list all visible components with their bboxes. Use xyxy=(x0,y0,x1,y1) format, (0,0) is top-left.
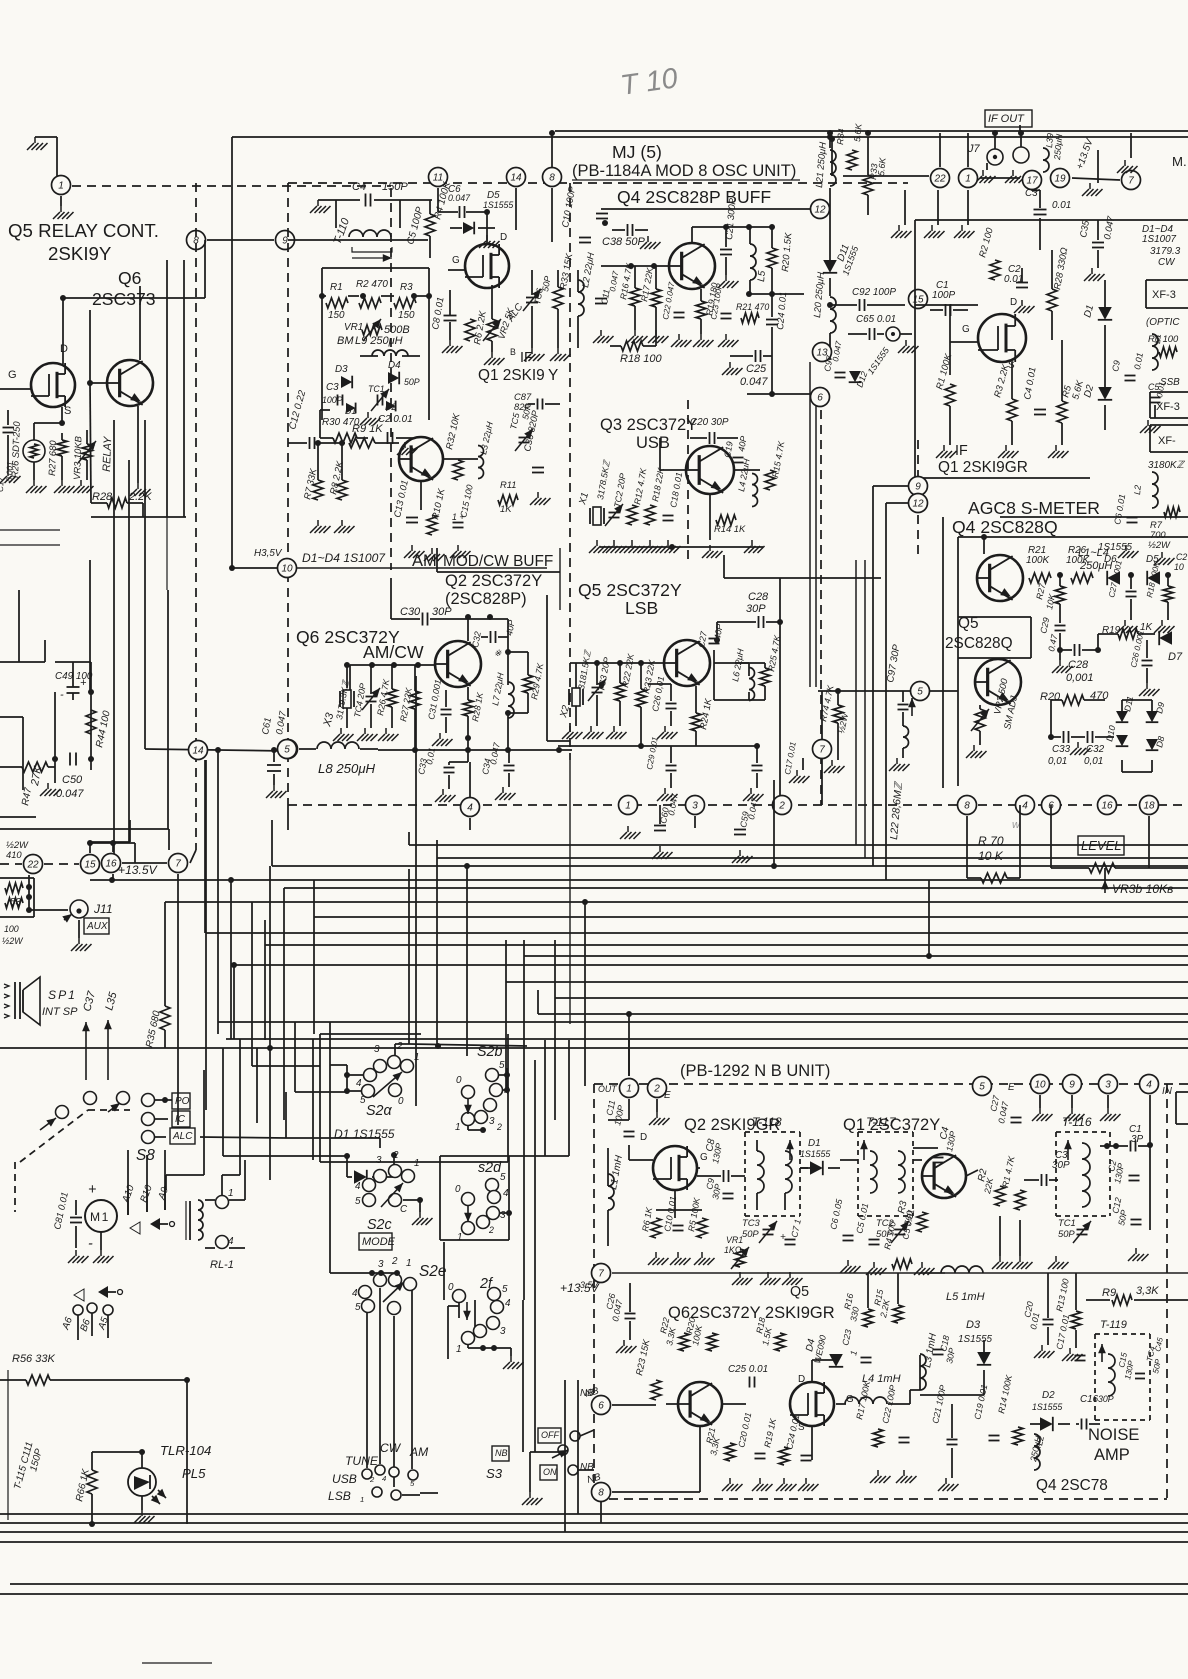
svg-text:+: + xyxy=(80,677,87,689)
arrow L35 xyxy=(107,1020,109,1080)
svg-text:XF-3: XF-3 xyxy=(1156,401,1180,413)
svg-text:S: S xyxy=(64,405,71,417)
Q4 mid rail xyxy=(749,293,804,295)
svg-text:1: 1 xyxy=(455,1122,461,1133)
svg-text:1: 1 xyxy=(414,1158,420,1169)
NB input parts xyxy=(608,1174,614,1210)
meter switch contacts xyxy=(130,1222,140,1234)
capacitor C17 0.001 left edge xyxy=(3,427,14,429)
node 15 xyxy=(81,855,100,874)
svg-text:※: ※ xyxy=(494,648,502,658)
node 3 bottom xyxy=(686,796,705,815)
svg-text:E: E xyxy=(664,1090,671,1101)
resistor R74 xyxy=(833,705,843,723)
wires relay transistors xyxy=(62,298,64,364)
svg-text:0.047: 0.047 xyxy=(448,193,471,203)
wire node9 into unit xyxy=(288,239,428,241)
node 4 bottom xyxy=(461,798,480,817)
svg-text:R27 680: R27 680 xyxy=(46,439,58,476)
svg-text:NB: NB xyxy=(580,1462,594,1473)
svg-text:30P: 30P xyxy=(746,603,766,615)
svg-text:VR1: VR1 xyxy=(344,322,363,333)
svg-text:G: G xyxy=(700,1152,708,1163)
svg-text:5: 5 xyxy=(284,745,290,756)
svg-text:USB: USB xyxy=(636,434,670,452)
label OFF boxed xyxy=(538,1428,561,1443)
svg-text:T-117: T-117 xyxy=(866,1115,897,1129)
svg-text:D1 1S1555: D1 1S1555 xyxy=(334,1127,395,1141)
svg-text:-: - xyxy=(88,1236,93,1252)
ground below node 1 xyxy=(60,206,62,212)
svg-text:LSB: LSB xyxy=(328,1489,351,1503)
2f left wire xyxy=(447,1306,449,1359)
crystal filter XF-3 box 2 xyxy=(1150,391,1188,393)
svg-text:S2e: S2e xyxy=(419,1263,446,1280)
svg-text:8: 8 xyxy=(964,801,970,812)
svg-text:1: 1 xyxy=(625,801,631,812)
svg-text:S2b: S2b xyxy=(477,1044,502,1060)
NB node 3 xyxy=(1099,1075,1118,1094)
resistor R4 100K xyxy=(425,214,435,236)
svg-text:D3: D3 xyxy=(966,1319,981,1331)
transistor Q1 NB xyxy=(922,1154,966,1198)
svg-text:16: 16 xyxy=(105,859,117,870)
ground M1 xyxy=(100,1250,102,1256)
svg-text:4: 4 xyxy=(505,1298,511,1309)
svg-text:100P: 100P xyxy=(322,395,343,405)
long vertical from IF OUT line to node 10 row xyxy=(231,137,233,568)
svg-text:(PB-1292 N B UNIT): (PB-1292 N B UNIT) xyxy=(680,1062,830,1080)
svg-text:7: 7 xyxy=(598,1269,604,1280)
jack J11 xyxy=(70,900,88,918)
speaker SP1 xyxy=(14,982,16,1019)
vertical x129 xyxy=(128,460,130,842)
dashed divider x918 xyxy=(917,440,919,560)
svg-text:0.01: 0.01 xyxy=(1052,200,1071,211)
wires from S2e down to mode circles xyxy=(366,1312,368,1468)
svg-text:AM: AM xyxy=(409,1445,429,1459)
Q6 emitter wire xyxy=(137,406,139,483)
wire from node 11 xyxy=(437,188,439,212)
dashed divider x821 xyxy=(820,395,822,805)
NB node 5 xyxy=(973,1077,992,1096)
svg-text:12: 12 xyxy=(912,499,924,510)
node 5 xyxy=(279,740,298,759)
wire 10 row xyxy=(297,567,547,569)
svg-text:150P: 150P xyxy=(382,181,408,193)
svg-text:S2α: S2α xyxy=(366,1103,392,1119)
crystal filter XF-30 box xyxy=(1146,279,1188,281)
svg-text:2.2K: 2.2K xyxy=(128,491,152,503)
svg-text:3: 3 xyxy=(376,1155,382,1166)
svg-text:TC1: TC1 xyxy=(368,384,385,394)
crystal filter XF- box 3 xyxy=(1150,424,1188,426)
wires above NB unit xyxy=(584,1085,586,1087)
svg-text:4: 4 xyxy=(467,803,473,814)
svg-text:R 70: R 70 xyxy=(978,834,1004,848)
wire below node 14 top xyxy=(515,188,517,230)
svg-text:D1: D1 xyxy=(808,1138,821,1149)
ground PL5 xyxy=(141,1510,143,1516)
ground near D5 xyxy=(486,235,488,241)
LSB bottom rail xyxy=(558,745,710,747)
svg-text:B: B xyxy=(510,347,516,357)
resistor R28 1K emitter xyxy=(463,700,473,716)
svg-text:C28: C28 xyxy=(1068,659,1089,671)
svg-text:BM: BM xyxy=(337,335,354,347)
gate wire Q5 xyxy=(0,388,31,390)
svg-text:5: 5 xyxy=(355,1302,361,1313)
transistor Q6 2SC373 xyxy=(107,360,153,406)
resistor R27 680 xyxy=(57,440,67,456)
svg-text:+: + xyxy=(780,1232,786,1243)
arrow C37 xyxy=(85,1022,87,1080)
node 14 xyxy=(189,741,208,760)
node 22 top right xyxy=(931,169,950,188)
stray mark bottom xyxy=(142,1662,212,1664)
svg-text:M1: M1 xyxy=(90,1210,110,1224)
wire into IF gate xyxy=(915,304,978,306)
left column feed to J11 xyxy=(28,875,30,910)
vertical right of ALC xyxy=(203,1070,205,1175)
svg-text:VR3 10KB: VR3 10KB xyxy=(71,436,84,480)
capacitor C28 30P xyxy=(758,616,760,628)
svg-text:1S1555: 1S1555 xyxy=(483,200,513,210)
dashed top edge center unit xyxy=(288,182,908,184)
capacitor C33 0.01 xyxy=(449,761,468,763)
node 7 top right xyxy=(1122,171,1141,190)
svg-text:VR1: VR1 xyxy=(726,1235,743,1245)
svg-text:3: 3 xyxy=(378,1259,384,1270)
svg-text:5: 5 xyxy=(502,1284,508,1295)
inductor L2 22uH xyxy=(578,280,584,316)
svg-text:D: D xyxy=(640,1132,647,1143)
junction on bus xyxy=(771,863,777,869)
node 6 AGC xyxy=(1042,796,1061,815)
relay area verticals xyxy=(166,260,168,517)
svg-text:C65 0.01: C65 0.01 xyxy=(856,314,896,325)
diodes D1 D2 IF xyxy=(1098,307,1112,320)
transistor Q5 2SK19Y xyxy=(31,363,75,407)
svg-text:5: 5 xyxy=(500,1172,506,1183)
svg-text:16: 16 xyxy=(1101,801,1113,812)
label IF OUT boxed xyxy=(985,110,1032,127)
svg-text:IF OUT: IF OUT xyxy=(988,113,1025,125)
svg-text:H3,5V: H3,5V xyxy=(254,548,283,559)
resistor R33 15K xyxy=(553,287,563,309)
svg-text:TLR-104: TLR-104 xyxy=(160,1443,211,1458)
svg-text:D: D xyxy=(798,1374,805,1385)
svg-text:R3: R3 xyxy=(400,282,413,293)
node 11 xyxy=(429,168,448,187)
svg-text:10 K: 10 K xyxy=(978,849,1004,863)
svg-text:IF: IF xyxy=(955,443,968,459)
ground VR2 xyxy=(491,352,493,358)
ground under C28 xyxy=(1059,660,1061,666)
wire above 15/16 xyxy=(90,842,135,844)
resistor R18 100 xyxy=(621,341,643,351)
vertical x295 xyxy=(294,1022,296,1092)
svg-text:MJ (5): MJ (5) xyxy=(612,142,662,162)
capacitor TC6 50P xyxy=(526,297,538,299)
svg-text:5: 5 xyxy=(499,1060,505,1071)
vertical from node 6 xyxy=(815,405,817,687)
svg-text:4: 4 xyxy=(228,1236,234,1247)
wire y578 xyxy=(724,577,881,579)
vertical from node 13 xyxy=(809,362,811,687)
node 7 mid xyxy=(813,740,832,759)
svg-text:D: D xyxy=(60,343,68,355)
svg-text:14: 14 xyxy=(192,746,204,757)
node 13 xyxy=(813,343,832,362)
resistor R26 4.7K xyxy=(387,689,397,707)
svg-text:IN: IN xyxy=(1162,1086,1173,1097)
USB bottom rail xyxy=(600,546,763,548)
svg-text:2: 2 xyxy=(496,1122,502,1132)
svg-text:0,001: 0,001 xyxy=(1066,672,1094,684)
label IC boxed xyxy=(172,1111,190,1127)
svg-text:CW: CW xyxy=(380,1441,402,1455)
svg-text:T-116: T-116 xyxy=(1062,1115,1092,1129)
svg-text:ON: ON xyxy=(543,1467,557,1477)
wire below S2d box xyxy=(443,1242,445,1300)
node 1 bottom xyxy=(619,796,638,815)
svg-text:TC1: TC1 xyxy=(1058,1217,1076,1228)
label ALC boxed xyxy=(170,1128,195,1144)
svg-text:R18 100: R18 100 xyxy=(620,353,662,365)
svg-text:10: 10 xyxy=(281,564,293,575)
svg-text:T-118: T-118 xyxy=(752,1115,782,1129)
svg-text:2SKI9Y: 2SKI9Y xyxy=(48,243,112,264)
svg-text:L9 250μH: L9 250μH xyxy=(355,335,403,347)
crystal X3 xyxy=(339,691,341,707)
svg-text:14: 14 xyxy=(510,173,522,184)
USB components cluster xyxy=(589,508,591,524)
L5 1mH xyxy=(941,1266,983,1273)
svg-text:100K: 100K xyxy=(1066,555,1089,566)
svg-text:INT SP: INT SP xyxy=(42,1006,78,1018)
VR2 SM ADJ xyxy=(975,709,985,731)
bias parts under Q4 xyxy=(595,298,607,300)
svg-text:R1: R1 xyxy=(330,282,343,293)
svg-text:150: 150 xyxy=(398,310,415,321)
svg-text:10: 10 xyxy=(1174,562,1184,572)
svg-text:2: 2 xyxy=(396,1041,403,1052)
long verticals center xyxy=(569,760,571,1024)
svg-text:+: + xyxy=(88,1182,96,1198)
svg-text:18: 18 xyxy=(1143,801,1155,812)
resistor R24 1K xyxy=(691,713,701,731)
svg-text:D2: D2 xyxy=(1042,1390,1055,1401)
svg-text:3: 3 xyxy=(489,1116,495,1127)
svg-text:TUNE: TUNE xyxy=(345,1454,379,1468)
capacitor C28 0.001 xyxy=(1074,644,1076,656)
node 10 xyxy=(278,559,297,578)
node 18 AGC xyxy=(1140,796,1159,815)
node 7 xyxy=(169,854,188,873)
NB node 8 xyxy=(592,1483,611,1502)
node 12 xyxy=(811,200,830,219)
svg-text:R6 100: R6 100 xyxy=(1148,333,1179,344)
svg-text:(OPTIC: (OPTIC xyxy=(1146,317,1180,328)
wires from AGC to bus xyxy=(966,816,968,878)
node 16 xyxy=(102,854,121,873)
resistor R7 xyxy=(1164,507,1180,517)
wire verticals bottom xyxy=(564,1380,566,1532)
svg-text:AMP: AMP xyxy=(1094,1446,1130,1464)
label MODE boxed xyxy=(359,1233,392,1250)
svg-text:2SC828Q: 2SC828Q xyxy=(945,635,1013,652)
svg-text:SSB: SSB xyxy=(1160,377,1180,388)
svg-text:3: 3 xyxy=(500,1326,506,1337)
svg-text:L8 250μH: L8 250μH xyxy=(318,761,376,776)
Q4 top rail xyxy=(692,226,772,228)
Q4 collector wire xyxy=(691,227,693,243)
diode D11 1S1555 xyxy=(823,260,837,273)
capacitor C61 0.047 xyxy=(273,750,275,762)
svg-text:5: 5 xyxy=(410,1479,415,1488)
ground 2f xyxy=(510,1356,512,1362)
wires IF top xyxy=(831,139,833,176)
svg-text:8: 8 xyxy=(549,173,555,184)
node 8 xyxy=(187,231,206,250)
svg-text:R9: R9 xyxy=(1102,1287,1116,1299)
svg-text:M.: M. xyxy=(1172,154,1187,169)
ground S3 xyxy=(529,1492,531,1498)
svg-text:4: 4 xyxy=(503,1188,509,1199)
svg-text:30P: 30P xyxy=(1052,1160,1070,1171)
svg-text:RELAY: RELAY xyxy=(101,436,114,472)
dashed NB left xyxy=(593,1084,595,1499)
svg-text:Q4 2SC828Q: Q4 2SC828Q xyxy=(952,517,1058,537)
svg-text:50P: 50P xyxy=(742,1228,759,1239)
wire from NB node 4 down xyxy=(1149,1095,1151,1230)
svg-text:0: 0 xyxy=(398,1096,404,1107)
svg-text:1S1555: 1S1555 xyxy=(1098,542,1133,553)
svg-text:2: 2 xyxy=(369,1475,375,1484)
svg-text:D3: D3 xyxy=(335,364,348,375)
vertical x313 xyxy=(312,1039,314,1160)
wire above A10 xyxy=(127,1150,129,1215)
svg-text:USB: USB xyxy=(332,1472,357,1486)
svg-text:½2W: ½2W xyxy=(1148,539,1171,550)
partial unit box right edge xyxy=(1176,1091,1188,1093)
relay RL-1 xyxy=(198,1200,203,1240)
wire into node 10 xyxy=(232,567,277,569)
svg-text:C30: C30 xyxy=(400,606,421,618)
svg-text:7: 7 xyxy=(175,859,181,870)
node 4 AGC xyxy=(1016,796,1035,815)
svg-text:R14 1K: R14 1K xyxy=(714,523,746,534)
node 14 top xyxy=(507,168,526,187)
S2a output wire xyxy=(395,1043,410,1045)
resistor R11 xyxy=(498,495,518,505)
node 9 xyxy=(276,231,295,250)
svg-text:1S1555: 1S1555 xyxy=(800,1149,830,1159)
svg-text:4: 4 xyxy=(1022,801,1028,812)
capacitor C32 40P xyxy=(490,631,492,643)
svg-text:5.6K: 5.6K xyxy=(876,156,888,176)
dashed divider x688 xyxy=(687,400,689,560)
resistor R6 2.2K xyxy=(465,319,475,341)
svg-text:1: 1 xyxy=(457,1232,463,1243)
node 17 xyxy=(1023,171,1042,190)
lamp / thermistor SDT-250 xyxy=(23,440,45,462)
LSB base rail xyxy=(570,662,664,664)
svg-text:3: 3 xyxy=(1105,1080,1111,1091)
svg-text:2: 2 xyxy=(778,801,785,812)
svg-text:XF-3: XF-3 xyxy=(1152,289,1176,301)
resistor R21 470 xyxy=(741,313,759,323)
long wire x535 xyxy=(534,1060,536,1452)
node 6 xyxy=(811,388,830,407)
svg-text:AM/CW: AM/CW xyxy=(363,642,424,662)
svg-text:0: 0 xyxy=(456,1075,462,1086)
svg-text:C4: C4 xyxy=(352,181,366,193)
svg-text:4: 4 xyxy=(1146,1080,1152,1091)
ground Q6 emitter xyxy=(137,483,139,489)
ground top-left xyxy=(35,136,57,138)
svg-text:0: 0 xyxy=(448,1282,454,1293)
svg-text:15: 15 xyxy=(84,860,96,871)
svg-text:2: 2 xyxy=(391,1256,398,1267)
NB wires xyxy=(628,1145,630,1160)
resistor R27 22K xyxy=(410,691,420,709)
svg-text:1S1555: 1S1555 xyxy=(958,1334,993,1345)
inductor L39 250uH xyxy=(1043,148,1049,172)
NB node 6 xyxy=(592,1396,611,1415)
capacitor C97 xyxy=(898,704,909,706)
svg-text:22: 22 xyxy=(933,174,946,185)
bottom long wires xyxy=(0,1513,1188,1515)
svg-text:RL-1: RL-1 xyxy=(210,1259,234,1271)
svg-text:NOISE: NOISE xyxy=(1088,1426,1139,1444)
svg-text:MODE: MODE xyxy=(362,1236,396,1248)
Q4 base rail xyxy=(601,265,669,267)
svg-text:ALC: ALC xyxy=(172,1131,193,1142)
svg-text:L5 1mH: L5 1mH xyxy=(946,1291,985,1303)
wire to node 7 xyxy=(821,691,823,739)
svg-text:6: 6 xyxy=(598,1401,604,1412)
svg-text:-: - xyxy=(60,689,64,701)
svg-text:8: 8 xyxy=(598,1488,604,1499)
dashed bottom edge / AGC bottom xyxy=(288,804,1188,806)
svg-text:Q4 2SC78: Q4 2SC78 xyxy=(1036,1477,1108,1494)
svg-text:1: 1 xyxy=(965,174,971,185)
svg-text:0.047: 0.047 xyxy=(740,376,768,388)
dashed wire to relay box xyxy=(72,185,391,187)
inductor L8 250uH xyxy=(299,748,316,750)
label LEVEL boxed xyxy=(1078,836,1124,855)
AGC frame lines xyxy=(1000,516,1188,518)
svg-text:(PB-1184A MOD 8 OSC UNIT): (PB-1184A MOD 8 OSC UNIT) xyxy=(572,162,796,180)
wire node5 to AGC xyxy=(930,690,958,692)
ground left of C4 xyxy=(317,200,319,206)
svg-text:S8: S8 xyxy=(136,1147,155,1164)
vertical x223 xyxy=(222,1048,224,1156)
FET Q1 2SK19 (osc) xyxy=(465,244,509,288)
label PO boxed xyxy=(172,1093,190,1109)
capacitor C60 0.047 xyxy=(654,825,666,827)
svg-text:4: 4 xyxy=(352,1288,358,1299)
svg-text:D7: D7 xyxy=(1168,651,1183,663)
capacitor C6 right xyxy=(1127,517,1138,519)
svg-text:Q1 2SKI9GR: Q1 2SKI9GR xyxy=(938,459,1028,476)
svg-text:Q3 2SC372Y: Q3 2SC372Y xyxy=(600,416,697,434)
diode bridge D10 D11 D9 D8 xyxy=(1116,711,1128,722)
svg-text:C33: C33 xyxy=(1052,744,1071,755)
svg-text:G: G xyxy=(962,324,970,335)
